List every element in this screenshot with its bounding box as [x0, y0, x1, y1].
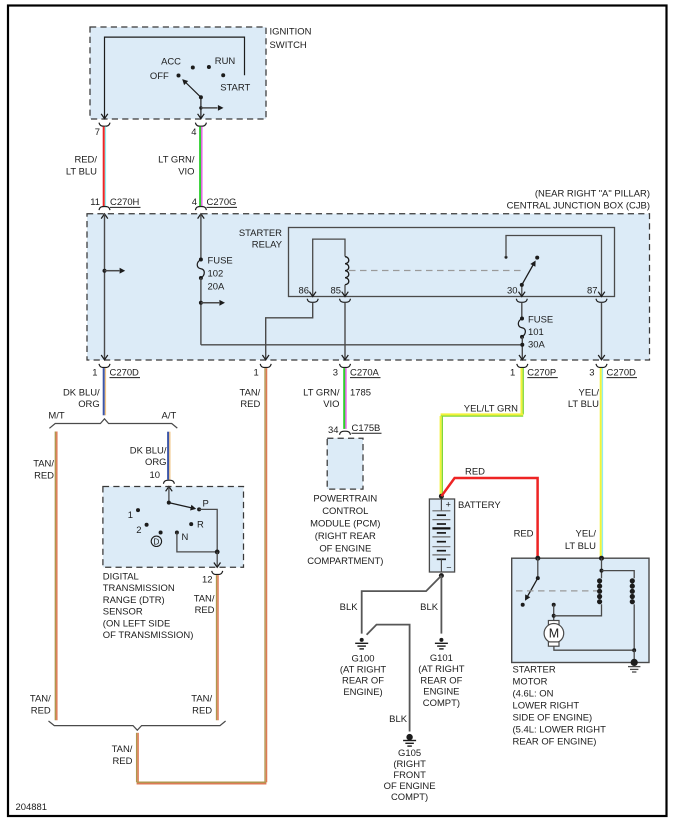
- ignition switch box: [90, 27, 266, 119]
- svg-text:SIDE OF ENGINE): SIDE OF ENGINE): [513, 712, 593, 723]
- motor to ground wire: [554, 646, 634, 650]
- hold-in winding (right coil): [602, 571, 635, 579]
- svg-text:102: 102: [208, 268, 224, 279]
- svg-text:SWITCH: SWITCH: [270, 40, 307, 51]
- svg-text:LT GRN/: LT GRN/: [158, 155, 195, 166]
- relay fixed contact and pin 87 bracket: [505, 256, 508, 259]
- svg-text:D: D: [153, 537, 159, 547]
- connector 3 C270A: [340, 364, 351, 368]
- svg-text:C270A: C270A: [350, 367, 380, 378]
- svg-text:M/T: M/T: [48, 411, 64, 422]
- svg-text:YEL/: YEL/: [576, 529, 597, 540]
- svg-text:RANGE (DTR): RANGE (DTR): [103, 595, 165, 606]
- connector pin 4 (ignition switch): [195, 123, 206, 127]
- relay coil: [345, 257, 349, 285]
- svg-text:LT BLU: LT BLU: [565, 541, 596, 552]
- ignition switch wiper arm: [199, 95, 203, 99]
- svg-text:ENGINE: ENGINE: [423, 687, 459, 698]
- ignition switch output wire with arrows: [200, 97, 202, 118]
- connector 3 C270D (right): [596, 364, 607, 368]
- svg-text:OFF: OFF: [150, 71, 169, 82]
- wire TAN/RED (M/T branch): [54, 432, 56, 721]
- svg-text:A/T: A/T: [162, 411, 177, 422]
- svg-text:(RIGHT: (RIGHT: [393, 759, 426, 770]
- svg-text:OF ENGINE: OF ENGINE: [319, 544, 371, 555]
- DTR wiper arm: [167, 501, 171, 505]
- ignition switch contacts: [191, 66, 195, 70]
- connector pin 10 DTR sensor: [163, 480, 174, 484]
- svg-text:RED: RED: [195, 605, 215, 616]
- ignition switch internal wire: [105, 37, 245, 119]
- svg-text:RED: RED: [34, 471, 54, 482]
- svg-text:1: 1: [92, 367, 97, 378]
- connector pin 7 (ignition switch): [99, 123, 110, 127]
- svg-text:STARTER: STARTER: [513, 664, 556, 675]
- svg-text:ORG: ORG: [78, 399, 100, 410]
- wire LT GRN/VIO circuit 1785 to PCM: [343, 368, 345, 429]
- svg-text:ENGINE): ENGINE): [343, 687, 382, 698]
- svg-text:N: N: [182, 532, 189, 543]
- svg-text:(RIGHT REAR: (RIGHT REAR: [315, 531, 376, 542]
- connector pin 1 (TAN/RED): [260, 364, 271, 368]
- svg-text:(AT RIGHT: (AT RIGHT: [418, 664, 465, 675]
- svg-text:204881: 204881: [16, 802, 48, 813]
- connector 4 C270G: [195, 207, 206, 211]
- svg-text:87: 87: [587, 285, 598, 296]
- svg-text:TRANSMISSION: TRANSMISSION: [103, 583, 175, 594]
- svg-text:CENTRAL JUNCTION BOX (CJB): CENTRAL JUNCTION BOX (CJB): [507, 201, 650, 212]
- powertrain control module box: [327, 438, 363, 489]
- wire BLK battery to G100: [362, 576, 442, 634]
- svg-text:FRONT: FRONT: [393, 770, 426, 781]
- svg-text:86: 86: [299, 285, 310, 296]
- connector 1 C270P: [517, 364, 528, 368]
- CJB internal wire B (C270G through fuse 102): [200, 214, 202, 260]
- svg-text:VIO: VIO: [178, 167, 194, 178]
- starter motor box: [512, 558, 649, 662]
- svg-text:FUSE: FUSE: [528, 314, 553, 325]
- wire BLK to G105: [367, 625, 410, 732]
- M/T - A/T splice brace: [49, 419, 177, 429]
- svg-text:TAN/: TAN/: [240, 388, 261, 399]
- svg-text:REAR OF ENGINE): REAR OF ENGINE): [513, 736, 597, 747]
- svg-text:11: 11: [90, 197, 100, 208]
- ground G105: [406, 734, 412, 740]
- svg-text:P: P: [203, 499, 209, 510]
- svg-text:DK BLU/: DK BLU/: [63, 388, 100, 399]
- wire YEL/LT GRN from C270P to battery: [520, 368, 522, 414]
- connector 34 C175B: [340, 431, 351, 435]
- svg-text:REAR OF: REAR OF: [420, 675, 462, 686]
- svg-text:(ON LEFT SIDE: (ON LEFT SIDE: [103, 618, 170, 629]
- wire YEL/LT BLU from C270D to starter: [600, 368, 602, 558]
- svg-text:LT BLU: LT BLU: [568, 399, 599, 410]
- DTR selector wire from pin 10: [168, 487, 170, 503]
- solenoid switch: [535, 556, 540, 561]
- wire BLK battery to G101: [440, 576, 442, 634]
- svg-text:COMPT): COMPT): [391, 792, 428, 803]
- svg-text:SENSOR: SENSOR: [103, 607, 143, 618]
- svg-text:10: 10: [150, 470, 161, 481]
- svg-text:7: 7: [95, 127, 100, 138]
- svg-text:4: 4: [192, 197, 197, 208]
- svg-text:G105: G105: [398, 748, 421, 759]
- svg-text:C270D: C270D: [110, 367, 140, 378]
- starter relay box: [289, 228, 615, 297]
- svg-text:(4.6L: ON: (4.6L: ON: [513, 688, 554, 699]
- svg-text:3: 3: [589, 367, 594, 378]
- svg-text:RED: RED: [192, 706, 212, 717]
- svg-text:MODULE (PCM): MODULE (PCM): [310, 519, 380, 530]
- fuse 101 30A: [520, 317, 524, 321]
- svg-text:YEL/: YEL/: [579, 388, 600, 399]
- svg-text:ORG: ORG: [145, 457, 167, 468]
- wire TAN/RED from DTR pin 12: [216, 575, 218, 720]
- svg-text:LT GRN/: LT GRN/: [303, 388, 340, 399]
- CJB internal wire A (C270H to C270D): [104, 214, 106, 360]
- svg-text:STARTER: STARTER: [239, 228, 282, 239]
- DTR contact D: [159, 531, 163, 535]
- svg-text:+: +: [446, 500, 451, 510]
- battery: [429, 499, 454, 572]
- svg-text:MOTOR: MOTOR: [513, 676, 548, 687]
- svg-text:RELAY: RELAY: [252, 240, 283, 251]
- digital transmission range sensor box: [103, 487, 244, 568]
- svg-text:LT BLU: LT BLU: [66, 167, 97, 178]
- svg-text:FUSE: FUSE: [208, 255, 233, 266]
- svg-text:(NEAR RIGHT "A" PILLAR): (NEAR RIGHT "A" PILLAR): [535, 188, 650, 199]
- CJB bottom exit arrows: [101, 355, 108, 360]
- CJB wire from relay pin 86 to exit 1: [266, 303, 313, 360]
- svg-text:LOWER RIGHT: LOWER RIGHT: [513, 700, 580, 711]
- svg-text:ACC: ACC: [161, 56, 181, 67]
- svg-text:−: −: [446, 563, 451, 573]
- svg-text:20A: 20A: [208, 281, 225, 292]
- svg-text:(5.4L: LOWER RIGHT: (5.4L: LOWER RIGHT: [513, 724, 607, 735]
- svg-text:REAR OF: REAR OF: [342, 676, 384, 687]
- wire to fuse 101 junction: [201, 344, 522, 346]
- starter ground: [633, 650, 635, 662]
- svg-text:OF ENGINE: OF ENGINE: [384, 781, 436, 792]
- CJB wire from relay pin 87 to exit 3 C270D: [601, 303, 603, 360]
- svg-text:RED: RED: [240, 399, 260, 410]
- svg-text:POWERTRAIN: POWERTRAIN: [313, 494, 377, 505]
- CJB wire from relay pin 85 to exit 3 C270A: [344, 303, 346, 360]
- connector 1 C270D (left): [99, 364, 110, 368]
- DTR contact N: [175, 531, 179, 535]
- svg-text:BATTERY: BATTERY: [458, 500, 501, 511]
- svg-text:101: 101: [528, 327, 544, 338]
- svg-text:C270H: C270H: [110, 197, 140, 208]
- central junction box (CJB): [87, 214, 650, 360]
- wire DK BLU/ORG from C270D: [103, 368, 105, 415]
- svg-text:3: 3: [333, 367, 338, 378]
- svg-text:RED/: RED/: [74, 155, 97, 166]
- ground G101: [439, 638, 443, 642]
- CJB wire from relay pin 30 through fuse 101: [521, 303, 523, 319]
- svg-text:TAN/: TAN/: [191, 694, 212, 705]
- relay switch pin 30: [521, 285, 523, 297]
- svg-text:RED: RED: [31, 706, 51, 717]
- svg-text:1: 1: [253, 367, 258, 378]
- fuse 102 20A: [199, 258, 203, 262]
- svg-text:COMPT): COMPT): [423, 698, 460, 709]
- svg-text:30A: 30A: [528, 340, 545, 351]
- merged TAN/RED wire to CJB pin 1: [136, 733, 138, 782]
- svg-text:4: 4: [191, 127, 196, 138]
- svg-text:G100: G100: [351, 653, 374, 664]
- svg-text:BLK: BLK: [389, 714, 408, 725]
- svg-text:RED: RED: [112, 756, 132, 767]
- pull-in winding (left coil): [599, 556, 604, 561]
- wire RED battery to starter solenoid: [441, 478, 537, 558]
- svg-text:1: 1: [510, 367, 515, 378]
- DTR contact P: [197, 507, 201, 511]
- solenoid contact to motor: [552, 603, 556, 607]
- DTR contact R: [189, 522, 193, 526]
- relay coil branch (pins 86-85): [313, 239, 345, 296]
- CJB entry arrows: [101, 214, 108, 219]
- svg-text:34: 34: [328, 425, 339, 436]
- svg-text:2: 2: [136, 525, 141, 536]
- wire DK BLU/ORG (A/T branch): [167, 432, 169, 480]
- svg-text:1785: 1785: [350, 388, 371, 399]
- svg-text:C175B: C175B: [352, 423, 381, 434]
- svg-text:RUN: RUN: [215, 56, 236, 67]
- DTR contact 2: [145, 523, 149, 527]
- svg-text:DK BLU/: DK BLU/: [130, 445, 167, 456]
- relay actuation dashed link: [349, 270, 522, 272]
- svg-text:TAN/: TAN/: [30, 694, 51, 705]
- svg-text:(AT RIGHT: (AT RIGHT: [340, 665, 387, 676]
- svg-text:M: M: [549, 627, 559, 641]
- svg-text:85: 85: [331, 285, 342, 296]
- svg-text:TAN/: TAN/: [112, 744, 133, 755]
- svg-text:IGNITION: IGNITION: [270, 26, 312, 37]
- svg-text:YEL/LT GRN: YEL/LT GRN: [464, 403, 518, 414]
- connector 11 C270H: [99, 207, 110, 211]
- svg-text:START: START: [220, 82, 250, 93]
- svg-text:TAN/: TAN/: [33, 459, 54, 470]
- solenoid dashed link: [516, 590, 598, 592]
- svg-text:COMPARTMENT): COMPARTMENT): [307, 556, 383, 567]
- svg-text:BLK: BLK: [420, 602, 439, 613]
- svg-text:1: 1: [128, 510, 133, 521]
- TAN/RED merge brace: [49, 721, 226, 730]
- svg-text:G101: G101: [430, 653, 453, 664]
- svg-text:OF TRANSMISSION): OF TRANSMISSION): [103, 630, 194, 641]
- ground G100: [360, 638, 364, 642]
- svg-text:DIGITAL: DIGITAL: [103, 572, 139, 583]
- DTR internal wiring P/N to pin 12: [199, 509, 217, 552]
- svg-text:BLK: BLK: [340, 602, 359, 613]
- svg-text:RED: RED: [514, 529, 534, 540]
- svg-text:R: R: [197, 520, 204, 531]
- svg-text:C270G: C270G: [207, 197, 237, 208]
- relay pin exit arrows and cups: [309, 292, 316, 297]
- starter motor M: [548, 621, 559, 625]
- DTR contact 1: [136, 508, 140, 512]
- wire RED/LT BLU: [103, 127, 105, 207]
- svg-text:VIO: VIO: [323, 399, 339, 410]
- svg-text:TAN/: TAN/: [194, 594, 215, 605]
- svg-text:RED: RED: [465, 467, 485, 478]
- svg-text:CONTROL: CONTROL: [322, 506, 368, 517]
- connector pin 12: [212, 571, 223, 575]
- wire LT GRN/VIO: [199, 127, 201, 207]
- svg-text:30: 30: [507, 285, 518, 296]
- svg-text:12: 12: [202, 575, 213, 586]
- svg-text:C270P: C270P: [527, 367, 556, 378]
- svg-text:C270D: C270D: [607, 367, 637, 378]
